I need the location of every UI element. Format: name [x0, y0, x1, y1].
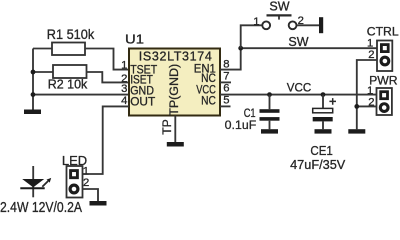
svg-text:6: 6: [223, 83, 229, 95]
wire CTRL pin2 to ground: [357, 60, 377, 129]
wire pin5 NC stub: [220, 105, 231, 107]
wire SW net to CTRL pin1: [241, 47, 377, 49]
svg-text:TP(GND): TP(GND): [167, 64, 181, 116]
svg-text:SW: SW: [269, 0, 289, 14]
wire pin7 NC stub: [220, 81, 231, 83]
svg-text:3: 3: [121, 83, 127, 95]
switch SW: [262, 15, 296, 29]
node SW net junction: [238, 46, 243, 51]
svg-text:1: 1: [367, 37, 373, 49]
node PWR pin2 junction: [354, 104, 359, 109]
wire SW pin2 to ground: [297, 24, 319, 26]
svg-text:NC: NC: [201, 93, 216, 107]
wire R2 right to pin2: [87, 72, 130, 82]
svg-text:R1 510k: R1 510k: [47, 27, 95, 42]
ground (CTRL/PWR): [348, 129, 365, 133]
wire pin8 to SW net: [220, 48, 241, 69]
ground (SW, vertical bar): [319, 17, 323, 33]
ground (TP): [167, 142, 184, 147]
connector CTRL: [377, 41, 392, 72]
wire switch branch up: [241, 25, 262, 48]
svg-text:1: 1: [121, 60, 127, 72]
node CE1 junction: [321, 92, 326, 97]
resistor R2: [53, 65, 87, 78]
node C1 junction: [267, 92, 272, 97]
node bus-GND junction: [31, 92, 36, 97]
svg-text:1: 1: [367, 85, 373, 97]
resistor R1: [52, 43, 85, 56]
capacitor C1: [260, 95, 280, 130]
node bus-R2 junction: [31, 70, 36, 75]
wire R1 right to pin1: [85, 49, 129, 70]
svg-text:1: 1: [253, 16, 259, 28]
svg-text:47uF/35V: 47uF/35V: [290, 157, 346, 172]
svg-text:0.1uF: 0.1uF: [225, 118, 257, 132]
wire PWR pin2 to ground line: [357, 105, 377, 107]
svg-text:VCC: VCC: [287, 81, 312, 95]
wire ground bus vertical: [32, 49, 34, 110]
connector LED: [67, 166, 83, 198]
svg-text:8: 8: [223, 58, 229, 70]
svg-text:2.4W 12V/0.2A: 2.4W 12V/0.2A: [0, 199, 83, 216]
capacitor CE1: [313, 95, 336, 130]
svg-text:PWR: PWR: [369, 74, 398, 88]
svg-text:SW: SW: [288, 35, 308, 49]
wire GND bus to pin3: [33, 94, 129, 96]
svg-text:5: 5: [223, 95, 229, 107]
wire TP to ground: [174, 116, 176, 143]
wire LED pin2 to ground: [83, 189, 99, 201]
svg-text:R2 10k: R2 10k: [48, 78, 88, 92]
ground (C1): [261, 129, 278, 133]
svg-text:2: 2: [368, 49, 374, 61]
svg-text:7: 7: [223, 70, 229, 82]
op-amp U1: [129, 49, 220, 116]
svg-text:OUT: OUT: [130, 95, 156, 109]
svg-text:4: 4: [121, 95, 127, 107]
svg-text:1: 1: [83, 166, 89, 178]
ground (left bus): [24, 110, 41, 115]
wire pin4 OUT to LED connector: [83, 106, 130, 174]
svg-text:CTRL: CTRL: [367, 24, 399, 38]
connector PWR: [377, 88, 392, 115]
wire R2 left to bus: [33, 71, 53, 73]
svg-text:2: 2: [83, 177, 89, 189]
svg-text:U1: U1: [125, 32, 144, 46]
wire VCC net pin6 to PWR pin1: [220, 94, 377, 96]
svg-text:TP: TP: [160, 119, 174, 135]
ground (LED): [90, 201, 107, 206]
wire R1 left to bus: [33, 48, 52, 50]
ground (CE1): [315, 129, 332, 133]
LED D1 symbol: [20, 166, 51, 197]
